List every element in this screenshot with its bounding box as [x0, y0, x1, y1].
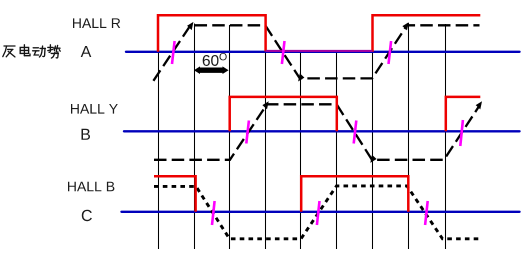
- arrowhead A rise 1: [187, 22, 193, 30]
- back-EMF B waveform (black dashed trapezoid): [154, 104, 480, 160]
- vertical grid line t5: [300, 52, 302, 250]
- label HALL R: [73, 18, 120, 28]
- phase A axis (blue): [126, 51, 520, 53]
- label HALL Y: [71, 104, 118, 114]
- label A: [81, 46, 92, 57]
- back-EMF C waveform (black dotted trapezoid): [154, 186, 479, 239]
- arrowhead B rise 1: [262, 101, 268, 109]
- zero-crossing slash C1: [212, 201, 215, 225]
- 60-degree span arrow (thick double-headed): [194, 66, 229, 74]
- arrowhead B rise 2: [476, 101, 482, 109]
- vertical grid line t4: [265, 25, 267, 249]
- HALL Y waveform (red) pulse 1: [230, 97, 337, 131]
- arrowhead A fall 1: [298, 73, 304, 81]
- HALL R waveform (red): [158, 15, 480, 52]
- zero-crossing slash A3: [389, 41, 392, 64]
- vertical grid line t3: [229, 25, 231, 249]
- 反: [3, 46, 15, 57]
- vertical grid line t9: [445, 24, 447, 249]
- arrowhead B fall 1: [370, 155, 376, 163]
- label HALL B: [68, 182, 114, 192]
- arrowhead A rise 2: [402, 22, 408, 30]
- zero-crossing slash B1: [246, 121, 249, 144]
- vertical grid line t7: [372, 25, 374, 249]
- HALL B waveform (red) pulse 2: [301, 176, 408, 212]
- vertical grid line t1: [158, 15, 160, 249]
- zero-crossing slash A2: [282, 41, 285, 64]
- zero-crossing slash A1: [172, 41, 175, 64]
- zero-crossing slash B3: [460, 120, 463, 146]
- 电: [20, 45, 30, 56]
- zero-crossing slash C3: [425, 201, 428, 225]
- HALL R low segment over axis (purple overlap): [266, 50, 373, 52]
- zero-crossing slash B2: [354, 121, 357, 144]
- vertical grid line t2: [194, 24, 196, 250]
- label C: [82, 210, 92, 221]
- 动: [33, 46, 46, 57]
- back-EMF A waveform (black dashed trapezoid): [153, 25, 479, 81]
- phase C axis (blue): [122, 211, 520, 213]
- zero-crossing slash C2: [317, 201, 320, 225]
- label back-EMF (反电动势) drawn as vector strokes: [3, 45, 60, 58]
- phase B axis (blue): [124, 130, 520, 132]
- HALL B waveform (red) pulse 1: [154, 176, 196, 212]
- vertical grid line t8: [408, 23, 410, 249]
- 势: [48, 45, 60, 58]
- vertical grid line t6: [336, 52, 338, 250]
- HALL Y waveform (red) pulse 2: [446, 97, 481, 131]
- label B: [82, 129, 91, 140]
- label 60 degrees: [203, 55, 219, 66]
